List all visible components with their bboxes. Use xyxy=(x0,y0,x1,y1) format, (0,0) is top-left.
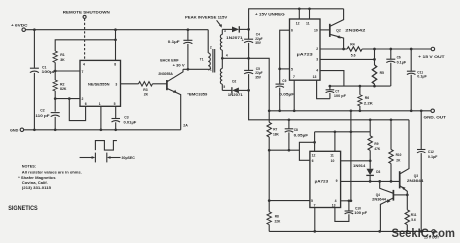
svg-text:6: 6 xyxy=(291,29,293,33)
wire -15V rail xyxy=(269,230,433,232)
node -15V OUT terminal xyxy=(424,230,440,240)
svg-text:NOTES:: NOTES: xyxy=(22,164,36,168)
wire pin 7 stub to rail xyxy=(314,208,316,232)
svg-text:35V: 35V xyxy=(255,75,262,79)
wire C3 to gnd row xyxy=(115,122,117,130)
svg-text:C8: C8 xyxy=(294,128,298,132)
svg-text:D3: D3 xyxy=(376,170,380,174)
svg-text:5: 5 xyxy=(114,102,116,106)
svg-text:1: 1 xyxy=(210,68,212,72)
svg-text:82K: 82K xyxy=(60,87,67,91)
wire pin 7 to gnd bus xyxy=(293,80,295,111)
capacitor C4 xyxy=(242,29,263,45)
resistor R6 xyxy=(358,86,374,111)
resistor R10 xyxy=(389,118,402,181)
svg-text:R6: R6 xyxy=(365,96,369,100)
wire L3 pins 11 12 line xyxy=(315,131,371,133)
svg-text:18K: 18K xyxy=(273,133,280,137)
svg-text:13: 13 xyxy=(313,75,317,79)
wire pin 12 stub xyxy=(298,9,300,19)
wire C4 to center tap node xyxy=(248,43,250,58)
svg-text:110 pF: 110 pF xyxy=(35,114,49,118)
svg-text:3: 3 xyxy=(115,82,117,86)
svg-text:0.05µF: 0.05µF xyxy=(294,134,309,138)
svg-text:11: 11 xyxy=(330,153,334,157)
transformer T1 secondary xyxy=(220,29,228,91)
svg-text:10: 10 xyxy=(314,29,318,33)
svg-text:6: 6 xyxy=(312,159,314,163)
svg-text:D2: D2 xyxy=(232,80,236,84)
svg-text:GND: GND xyxy=(10,128,18,133)
svg-text:+ 30 V: + 30 V xyxy=(173,64,186,68)
wire pin 4 xyxy=(341,200,351,202)
svg-text:1N2071: 1N2071 xyxy=(228,93,243,97)
wire notes text xyxy=(18,164,82,190)
wire pin 10 to D3 node xyxy=(341,160,371,162)
transistor Q2 2N3642 xyxy=(330,9,366,49)
wire pin 10 to Q2 base xyxy=(320,29,329,31)
svg-text:+ 15V UNREG: + 15V UNREG xyxy=(255,12,285,16)
wire collector node to primary bottom xyxy=(183,68,209,70)
wire pin 6 loop to pin 2 xyxy=(69,99,85,121)
wire gnd vertical to pin 4 xyxy=(350,111,352,201)
wire pin 9 line xyxy=(341,180,400,182)
svg-text:5: 5 xyxy=(291,67,293,71)
svg-text:1N914: 1N914 xyxy=(353,164,366,168)
svg-text:R10: R10 xyxy=(396,153,402,157)
svg-text:Q3: Q3 xyxy=(414,174,418,178)
wire pin 11 stub xyxy=(309,9,311,19)
wire C5 to D2 node xyxy=(248,74,250,90)
svg-text:11: 11 xyxy=(306,21,310,25)
wire +15V unreg rail xyxy=(249,9,344,30)
svg-text:12: 12 xyxy=(296,21,300,25)
wire R3 to Q1 base xyxy=(153,83,167,85)
wire C2 to gnd row xyxy=(54,117,56,130)
resistor R7 xyxy=(267,111,280,201)
svg-text:Covina, Calif.: Covina, Calif. xyxy=(22,181,48,185)
svg-text:+ 6VDC: + 6VDC xyxy=(11,23,28,28)
svg-text:1N2071: 1N2071 xyxy=(226,36,243,40)
svg-text:C3: C3 xyxy=(124,115,128,119)
svg-text:2N3055A: 2N3055A xyxy=(158,72,173,76)
wire sense line xyxy=(330,85,391,87)
wire center tap xyxy=(222,58,269,111)
svg-text:R7: R7 xyxy=(273,127,277,131)
capacitor C9 xyxy=(276,69,295,111)
wire pulse waveform annotation xyxy=(80,141,136,163)
svg-text:R2: R2 xyxy=(60,82,65,86)
node GND OUT terminal xyxy=(424,109,447,119)
resistor R2 xyxy=(53,80,67,91)
svg-text:+ 15 V OUT: + 15 V OUT xyxy=(418,55,445,59)
resistor R11 xyxy=(405,210,417,232)
svg-text:R8: R8 xyxy=(275,215,279,219)
capacitor C5 xyxy=(244,58,262,79)
capacitor C10 xyxy=(345,199,368,214)
svg-text:4: 4 xyxy=(226,54,228,58)
capacitor C1 xyxy=(30,66,57,74)
transistor Q4 2N3644 xyxy=(372,181,407,231)
svg-text:6: 6 xyxy=(85,102,87,106)
resistor R5 xyxy=(372,49,384,86)
svg-text:5.6: 5.6 xyxy=(411,218,416,222)
svg-text:(213) 331-0115: (213) 331-0115 xyxy=(22,186,51,190)
svg-text:35V: 35V xyxy=(255,41,262,45)
resistor R4 xyxy=(347,43,362,58)
wire top +6V rail xyxy=(25,29,208,31)
svg-text:PEAK INVERSE 115V: PEAK INVERSE 115V xyxy=(185,15,228,20)
svg-text:5.6: 5.6 xyxy=(351,54,356,58)
capacitor C7 with pin 13 loop xyxy=(317,80,346,99)
resistor R1 xyxy=(53,51,65,62)
node peak inverse annotation xyxy=(185,15,228,28)
node +6VDC terminal xyxy=(11,23,28,32)
wire C1 to gnd row xyxy=(33,73,35,130)
svg-text:47K: 47K xyxy=(374,147,381,151)
svg-text:30µSEC: 30µSEC xyxy=(122,156,136,160)
transistor Q3 2N3644 xyxy=(400,120,424,210)
wire pin 11 stub xyxy=(334,132,336,152)
svg-text:0.1µF: 0.1µF xyxy=(428,155,438,159)
capacitor 0.1uF snubber xyxy=(168,28,193,69)
wire pin 4 elbow xyxy=(320,71,344,87)
wire pin 2 xyxy=(55,98,80,100)
wire pin 7 xyxy=(55,70,80,72)
capacitor C2 xyxy=(35,109,59,119)
svg-text:2: 2 xyxy=(210,45,212,49)
transformer T1 core xyxy=(213,49,215,73)
wire gnd bus xyxy=(269,110,432,112)
wire pin 5 xyxy=(280,68,290,70)
diode D3 1N914 xyxy=(353,161,381,182)
svg-text:C7: C7 xyxy=(335,90,339,94)
wire dashed remote shutdown to pin 4 xyxy=(84,19,86,61)
svg-text:C6: C6 xyxy=(397,56,401,60)
svg-text:0.01µF: 0.01µF xyxy=(124,120,137,124)
wire R7 C8 to vref loop xyxy=(269,149,299,151)
svg-text:R4: R4 xyxy=(350,43,354,47)
wire pin 5 to divider xyxy=(269,200,310,202)
svg-text:µA723: µA723 xyxy=(297,53,313,57)
svg-text:9: 9 xyxy=(336,179,338,183)
svg-text:* Shafer Magnetics: * Shafer Magnetics xyxy=(18,176,56,180)
svg-text:100 pF: 100 pF xyxy=(354,211,367,215)
svg-text:R5: R5 xyxy=(380,71,384,75)
wire +6V down to C1 xyxy=(33,30,35,68)
svg-text:2K: 2K xyxy=(396,158,401,162)
svg-text:R1: R1 xyxy=(60,53,65,57)
svg-text:0.1µF: 0.1µF xyxy=(168,40,180,44)
diode D1 xyxy=(222,26,248,40)
svg-text:C12: C12 xyxy=(428,150,434,154)
svg-text:0.1µF: 0.1µF xyxy=(417,75,427,79)
svg-text:Q4: Q4 xyxy=(376,193,380,197)
svg-text:2N3644: 2N3644 xyxy=(372,198,386,202)
wire R2 bottom junction xyxy=(54,91,56,112)
svg-text:GND. OUT: GND. OUT xyxy=(424,115,447,119)
capacitor C8 xyxy=(285,118,308,150)
svg-text:SeekIC.com: SeekIC.com xyxy=(392,226,455,240)
svg-text:3: 3 xyxy=(316,58,318,62)
svg-text:Q2: Q2 xyxy=(336,29,341,33)
svg-text:R11: R11 xyxy=(411,213,417,217)
wire +15V out line xyxy=(362,48,431,50)
svg-text:4: 4 xyxy=(83,63,85,67)
node REMOTE SHUTDOWN xyxy=(63,9,110,18)
svg-text:C9: C9 xyxy=(282,79,286,83)
wire pin 8 from rail xyxy=(115,30,117,61)
wire pin 5 stub xyxy=(115,106,117,118)
capacitor C11 xyxy=(407,49,427,111)
svg-text:8: 8 xyxy=(114,63,116,67)
wire pin 12 stub up to L3 xyxy=(314,132,316,152)
svg-text:3K: 3K xyxy=(60,58,65,62)
op-amp U2 uA723 positive regulator xyxy=(290,19,321,80)
wire pin 1 to gnd xyxy=(100,106,102,130)
wire pin 3 to R5 xyxy=(320,58,375,60)
capacitor C3 xyxy=(112,115,137,124)
svg-text:2N3642: 2N3642 xyxy=(345,29,365,33)
svg-text:+: + xyxy=(242,38,244,42)
svg-text:R9: R9 xyxy=(374,142,378,146)
capacitor C12 xyxy=(417,109,437,231)
svg-text:7: 7 xyxy=(314,203,316,207)
svg-text:µA723: µA723 xyxy=(315,179,328,183)
resistor R9 xyxy=(368,118,381,160)
svg-text:1: 1 xyxy=(99,102,101,106)
wire R1 bottom to R2 top xyxy=(54,63,56,81)
svg-text:12: 12 xyxy=(312,153,316,157)
op-amp U1 555 timer box xyxy=(80,60,121,106)
svg-text:2: 2 xyxy=(316,47,318,51)
svg-text:REMOTE SHUTDOWN: REMOTE SHUTDOWN xyxy=(63,9,110,14)
wire pin 6 loop U3 xyxy=(299,142,314,160)
svg-text:10: 10 xyxy=(331,159,335,163)
node +15V OUT terminal xyxy=(418,47,445,59)
svg-text:2A: 2A xyxy=(183,124,188,128)
svg-text:SIGNETICS: SIGNETICS xyxy=(8,205,38,212)
transistor Q1 2N3055A xyxy=(158,59,185,130)
wire R1 top line xyxy=(55,40,115,51)
svg-text:*BMC3359: *BMC3359 xyxy=(187,92,207,96)
transformer T1 primary xyxy=(200,30,212,72)
svg-text:0.1µF: 0.1µF xyxy=(397,60,407,64)
wire D2 node down to -V rail xyxy=(249,90,409,119)
wire gnd row xyxy=(24,129,181,131)
svg-text:All resistor values are in ohm: All resistor values are in ohms. xyxy=(22,170,82,174)
svg-text:4: 4 xyxy=(316,69,318,73)
svg-text:100 pF: 100 pF xyxy=(334,94,346,98)
svg-text:NE/SE555N: NE/SE555N xyxy=(88,82,110,86)
op-amp U3 uA723 negative regulator xyxy=(310,151,341,207)
wire pin 6 to pin 5 xyxy=(280,30,290,69)
resistor R8 xyxy=(267,201,281,232)
svg-text:5: 5 xyxy=(223,85,225,89)
svg-text:2K: 2K xyxy=(144,92,149,96)
svg-text:C2: C2 xyxy=(40,109,44,113)
wire pin 3 to R3 xyxy=(121,83,139,85)
svg-text:0.05µF: 0.05µF xyxy=(279,93,294,97)
svg-text:13: 13 xyxy=(332,203,336,207)
svg-text:22K: 22K xyxy=(275,219,282,223)
svg-text:2.2K: 2.2K xyxy=(364,102,374,106)
svg-text:T1: T1 xyxy=(200,57,204,61)
svg-text:7: 7 xyxy=(82,70,84,74)
diode D2 xyxy=(222,80,248,98)
svg-text:BACK EMF: BACK EMF xyxy=(160,59,178,63)
svg-text:7: 7 xyxy=(293,75,295,79)
svg-text:2: 2 xyxy=(82,97,84,101)
wire pin 13 C10 loop xyxy=(335,208,349,222)
wire pin 2 to R4 xyxy=(320,48,347,50)
capacitor C6 xyxy=(386,49,406,86)
resistor R3 xyxy=(139,82,153,97)
node GND terminal xyxy=(10,128,24,133)
